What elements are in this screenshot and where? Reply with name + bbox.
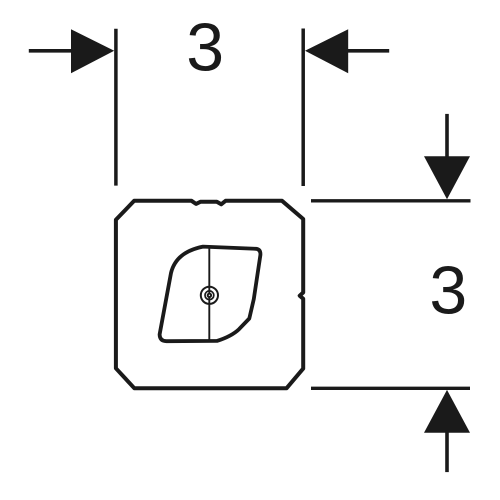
svg-text:3: 3: [186, 10, 224, 86]
svg-text:3: 3: [429, 253, 467, 329]
